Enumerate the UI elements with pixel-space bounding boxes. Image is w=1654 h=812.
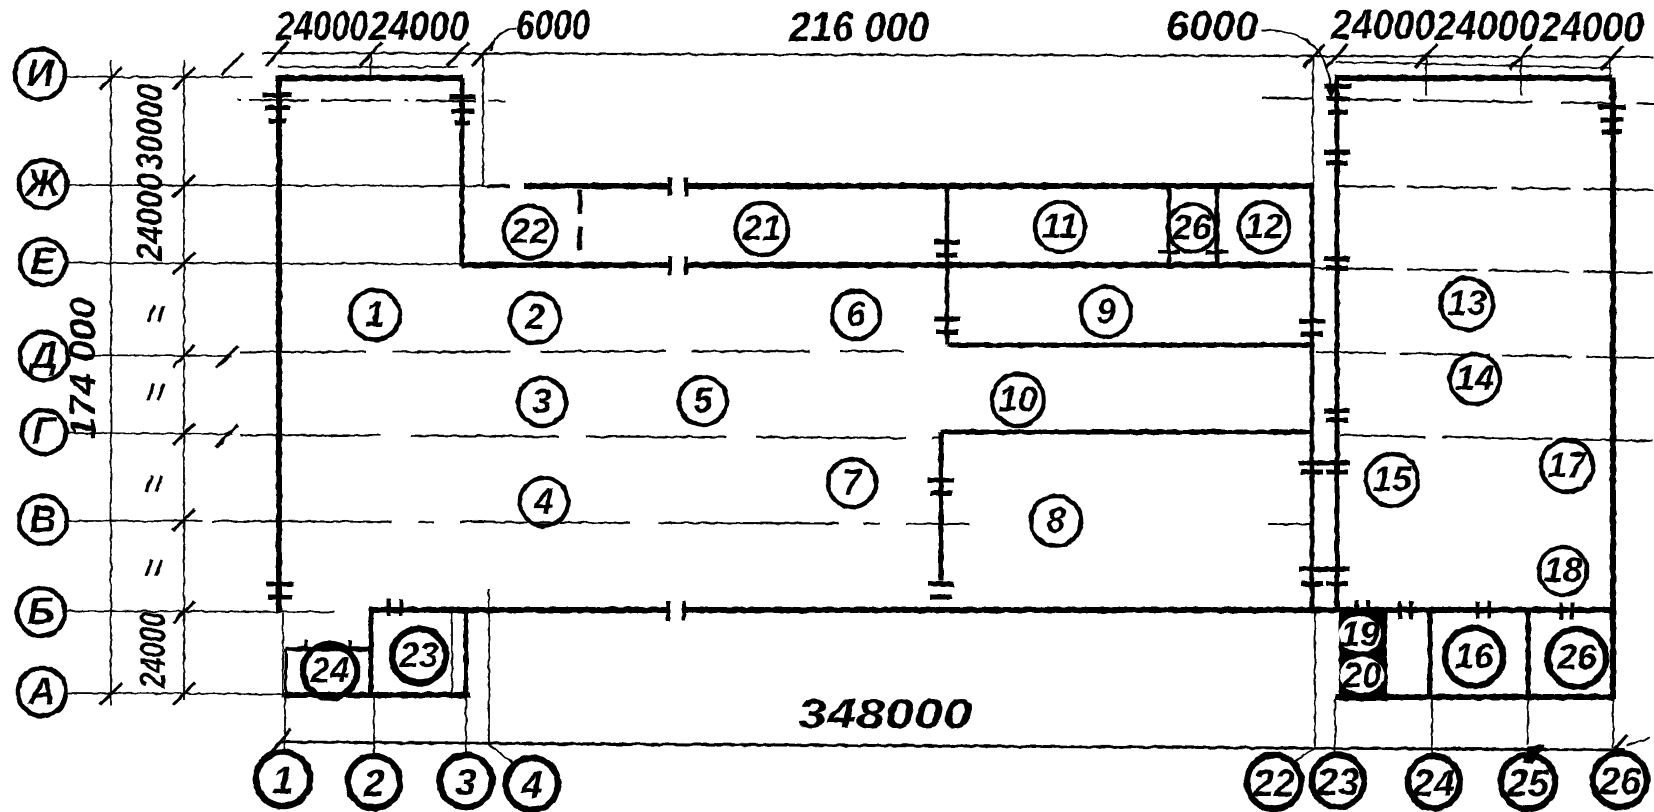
- column x1312 marks: [1299, 321, 1325, 584]
- svg-text:26: 26: [1557, 638, 1597, 677]
- wall room8 top: [941, 430, 1310, 435]
- svg-text:9: 9: [1096, 292, 1116, 331]
- top connector x1426: [1425, 57, 1427, 96]
- room circle 14: [1450, 354, 1500, 404]
- column circle 22: [1247, 755, 1301, 809]
- room label 20: [1340, 656, 1384, 695]
- wall B east segment: [684, 607, 1613, 613]
- axis line E: [66, 263, 462, 264]
- svg-text:23: 23: [399, 636, 439, 675]
- axis circle Zh: [19, 160, 67, 208]
- leader column 26b: [1612, 699, 1614, 748]
- axis circle B: [17, 588, 65, 636]
- wall room23 right: [464, 608, 469, 697]
- column circle 2: [348, 756, 400, 808]
- axis dash line G right: [1340, 435, 1654, 441]
- room circle 15: [1366, 454, 1418, 506]
- room circle 2: [510, 293, 560, 343]
- room 26 upper left wall: [1167, 188, 1172, 250]
- svg-text:19: 19: [1341, 615, 1380, 654]
- svg-text:6000: 6000: [516, 1, 590, 48]
- tick on B at G: [173, 423, 195, 445]
- room circle 21: [736, 203, 788, 255]
- tick on A at Ax: [100, 683, 122, 705]
- column x947 lower: [934, 319, 960, 332]
- svg-text:1: 1: [272, 760, 293, 802]
- joint ticks Zh wall: [670, 177, 686, 196]
- top dim second line left: [277, 66, 458, 68]
- svg-text:24000: 24000: [129, 173, 170, 262]
- column x462: [449, 97, 476, 123]
- room circle 18: [1539, 547, 1587, 595]
- svg-text:13: 13: [1448, 284, 1487, 323]
- axis circle D: [20, 332, 68, 380]
- wall x1430: [1428, 610, 1433, 697]
- leader column 24b: [1431, 699, 1433, 757]
- axis dash line V: [212, 521, 970, 524]
- top tick x1521: [1510, 45, 1532, 69]
- svg-text:22: 22: [1252, 763, 1295, 805]
- svg-text:23: 23: [1316, 762, 1359, 804]
- tick on B at E: [173, 252, 195, 274]
- tick on B at Zh: [173, 175, 195, 197]
- room circle 12: [1239, 202, 1289, 252]
- svg-text:25: 25: [1506, 763, 1550, 805]
- wall joint left x1312: [1310, 184, 1315, 610]
- axis circle V: [19, 496, 67, 544]
- wall left outer: [276, 78, 282, 613]
- top tick x371: [360, 42, 382, 66]
- wall room23 left: [369, 608, 374, 697]
- wall room9 bottom: [947, 343, 1311, 348]
- svg-text:8: 8: [1046, 501, 1066, 540]
- svg-text:Е: Е: [30, 241, 57, 283]
- wall x947: [945, 186, 950, 345]
- room circle 8: [1031, 496, 1081, 546]
- svg-text:14: 14: [1456, 359, 1495, 398]
- axis line I: [66, 76, 252, 78]
- svg-text:174 000: 174 000: [62, 297, 103, 439]
- axis dash line E right: [1313, 268, 1654, 273]
- svg-text:Б: Б: [28, 591, 55, 633]
- column circle 4: [506, 758, 558, 810]
- room circle 1: [350, 290, 400, 340]
- dim column line A: [110, 60, 112, 706]
- svg-text:24000: 24000: [132, 612, 173, 689]
- wall Zh east segment: [688, 183, 1312, 189]
- arrow mark near 25: [1523, 745, 1545, 764]
- wall room24 left: [285, 649, 288, 695]
- wall top left wing: [275, 75, 463, 81]
- wall room8 left: [939, 432, 944, 581]
- wall x1528: [1526, 610, 1531, 697]
- axis dash line G: [240, 435, 941, 438]
- top tick x1314: [1303, 44, 1325, 68]
- wall right outer: [1610, 78, 1616, 699]
- svg-text:15: 15: [1373, 460, 1412, 499]
- svg-text:6000: 6000: [1166, 2, 1258, 49]
- leader column 22: [1291, 612, 1315, 764]
- axis line Zh: [67, 185, 505, 186]
- room label 19: [1339, 615, 1381, 654]
- svg-text:1: 1: [365, 295, 384, 334]
- column circle 26: [1593, 753, 1647, 807]
- tick on B at Ax: [173, 683, 195, 705]
- axis dash line V right: [1268, 523, 1311, 525]
- svg-text:2: 2: [362, 763, 384, 805]
- svg-text:11: 11: [1042, 207, 1078, 246]
- joint ticks E wall: [670, 256, 686, 275]
- room 19-20 black box: [1339, 611, 1387, 701]
- ditto mark V-B: [146, 560, 162, 576]
- svg-text:4: 4: [520, 765, 542, 807]
- svg-text:20: 20: [1342, 656, 1382, 695]
- column x947 upper: [934, 242, 960, 255]
- joint ticks B wall right1: [1357, 600, 1368, 618]
- wall top right wing: [1335, 75, 1613, 81]
- column x941 mid: [928, 480, 954, 493]
- room circle 5: [679, 377, 727, 425]
- room circle 3: [518, 378, 566, 426]
- room circle 11: [1035, 202, 1085, 252]
- column circle 24: [1408, 756, 1460, 808]
- column x277 bottom: [266, 584, 294, 597]
- dim column line B: [183, 60, 185, 700]
- bottom tick right: [1605, 735, 1627, 761]
- room circle 9: [1081, 287, 1131, 337]
- svg-text:16: 16: [1455, 637, 1494, 676]
- leader 6000 left: [491, 28, 517, 51]
- tick on B at D: [173, 345, 195, 367]
- svg-text:В: В: [29, 499, 56, 541]
- svg-text:24000: 24000: [1330, 1, 1435, 48]
- tick on B at Bx: [173, 601, 195, 623]
- top connector x1610: [1609, 57, 1611, 100]
- leader 6000 right arrowhead: [1325, 87, 1336, 99]
- svg-text:18: 18: [1544, 551, 1583, 590]
- wall left lower thin: [282, 613, 284, 697]
- svg-text:24: 24: [1412, 763, 1455, 805]
- svg-text:3: 3: [532, 382, 552, 421]
- top dimension line: [262, 53, 1654, 57]
- axis line D: [68, 355, 232, 356]
- column x1612: [1598, 107, 1626, 132]
- leader column 2: [373, 697, 375, 754]
- axis dash line D: [240, 351, 905, 352]
- leader column 3: [465, 697, 467, 752]
- svg-text:Ж: Ж: [23, 163, 62, 205]
- svg-text:5: 5: [693, 381, 713, 420]
- joint ticks room23 top: [389, 599, 401, 616]
- column circle 23: [1312, 755, 1364, 807]
- svg-text:30000: 30000: [129, 84, 170, 170]
- wall left wing right: [460, 78, 465, 266]
- room circle 22: [504, 206, 556, 258]
- extra tick I: [221, 53, 243, 75]
- top tick x277: [266, 42, 288, 66]
- svg-text:24000: 24000: [275, 2, 368, 49]
- top tick x483: [472, 42, 494, 66]
- column x277 top: [263, 95, 292, 121]
- svg-text:21: 21: [742, 209, 782, 248]
- svg-text:12: 12: [1245, 207, 1284, 246]
- extra tick D: [216, 346, 238, 368]
- svg-text:6: 6: [846, 295, 866, 334]
- top tick x458: [447, 42, 469, 66]
- tick on A at I: [100, 67, 122, 89]
- axis line V: [66, 520, 202, 522]
- svg-text:216 000: 216 000: [788, 3, 929, 50]
- column circle 25: [1501, 755, 1555, 809]
- wall joint right x1337: [1335, 78, 1340, 610]
- room 26 upper right wall: [1215, 188, 1220, 250]
- svg-text:Д: Д: [27, 335, 57, 377]
- wall E west segment: [462, 262, 668, 268]
- column x1337 marks: [1324, 86, 1352, 584]
- room circle 26 lower: [1548, 629, 1606, 687]
- leader column 4: [489, 589, 513, 763]
- axis line A: [66, 693, 286, 694]
- svg-text:348000: 348000: [798, 690, 972, 737]
- axis line G: [66, 433, 232, 434]
- room circle 13: [1441, 278, 1493, 330]
- svg-text:26: 26: [1598, 761, 1642, 803]
- room circle 26 upper: [1168, 204, 1216, 252]
- top tick x1612: [1601, 46, 1623, 70]
- svg-text:3: 3: [455, 762, 476, 804]
- axis line B: [65, 611, 335, 612]
- top dim second line right: [1336, 62, 1612, 68]
- room circle 4: [520, 478, 568, 526]
- svg-text:2: 2: [524, 298, 545, 337]
- room circle 10: [992, 374, 1044, 426]
- wall room24 top: [286, 647, 369, 652]
- svg-text:24: 24: [310, 651, 350, 690]
- svg-text:7: 7: [842, 463, 863, 502]
- svg-text:24000: 24000: [1539, 3, 1644, 50]
- svg-text:А: А: [27, 671, 55, 713]
- bottom tick right tail: [1627, 738, 1650, 745]
- extra tick G: [216, 425, 238, 447]
- room 26 upper bottom bars: [1158, 252, 1228, 262]
- leader column 1: [284, 697, 286, 750]
- room circle 23: [392, 629, 446, 683]
- svg-text:4: 4: [533, 482, 553, 521]
- joint ticks B wall center: [668, 601, 684, 621]
- room circle 24: [303, 644, 357, 698]
- leader column 25: [1527, 699, 1529, 744]
- leader 6000 right: [1262, 30, 1331, 93]
- svg-text:24000: 24000: [368, 2, 469, 49]
- top tick x1337: [1326, 44, 1348, 68]
- joint ticks B wall right4: [1561, 602, 1572, 620]
- column x941 low: [928, 584, 954, 597]
- axis dash line I left: [238, 100, 505, 101]
- axis circle I: [15, 49, 65, 99]
- bottom dimension line: [280, 742, 1625, 750]
- axis circle A: [18, 668, 66, 716]
- column circle 3: [440, 755, 492, 807]
- axis circle G: [22, 410, 66, 454]
- stubs room24 top: [306, 640, 350, 652]
- ditto mark D-G: [148, 384, 164, 400]
- room circle 7: [828, 459, 876, 507]
- room circle 16: [1445, 628, 1503, 686]
- wall Zh west segment: [524, 183, 668, 189]
- tick on B at V: [173, 509, 195, 531]
- top connector x371: [370, 55, 372, 78]
- svg-text:Г: Г: [32, 411, 57, 453]
- joint ticks B wall right2: [1400, 601, 1411, 619]
- axis circle E: [20, 239, 66, 285]
- svg-text:17: 17: [1548, 446, 1588, 485]
- wall B west segment: [369, 607, 666, 613]
- room circle 17: [1541, 440, 1593, 492]
- bottom tick left: [269, 729, 291, 755]
- svg-text:26: 26: [1172, 208, 1212, 247]
- svg-text:И: И: [26, 53, 54, 95]
- leader inner room23: [451, 613, 453, 695]
- axis dash line Zh right: [1335, 186, 1654, 190]
- svg-text:24000: 24000: [1434, 2, 1539, 49]
- wall E east segment: [688, 262, 1310, 268]
- svg-text:10: 10: [999, 380, 1038, 419]
- ditto mark E-D: [148, 306, 164, 322]
- svg-text:22: 22: [510, 212, 550, 251]
- top tick x1426: [1415, 44, 1437, 68]
- top connector x483: [482, 54, 484, 187]
- column circle 1: [256, 752, 310, 806]
- leader column 23b: [1334, 699, 1336, 756]
- room circle 6: [832, 291, 880, 339]
- axis dash line D right: [1316, 352, 1654, 358]
- ditto mark G-V: [146, 476, 162, 492]
- axis dash line I right: [1262, 98, 1654, 104]
- top connector x1521: [1520, 57, 1522, 96]
- wall bottom right wing: [1335, 694, 1613, 700]
- wall bottom left annex: [284, 692, 470, 698]
- joint ticks B wall right3: [1478, 601, 1489, 619]
- room 22 dashed wall: [578, 190, 583, 263]
- tick on B at I: [173, 67, 195, 89]
- top connector x1313: [1312, 57, 1314, 184]
